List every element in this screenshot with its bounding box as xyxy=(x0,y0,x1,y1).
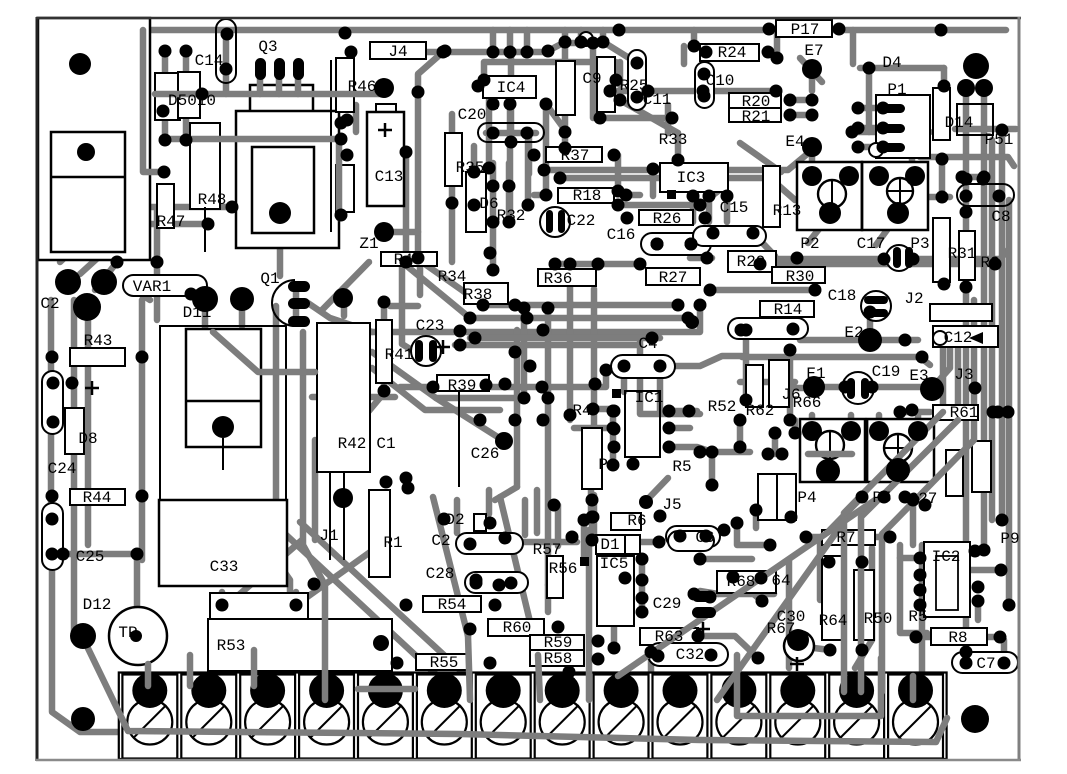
svg-text:R63: R63 xyxy=(655,628,684,646)
svg-text:E2: E2 xyxy=(844,324,863,342)
svg-text:C15: C15 xyxy=(720,199,749,217)
svg-text:R46: R46 xyxy=(348,78,377,96)
svg-text:C19: C19 xyxy=(872,363,901,381)
svg-text:C24: C24 xyxy=(48,460,77,478)
svg-text:R18: R18 xyxy=(573,187,602,205)
svg-text:J5: J5 xyxy=(662,496,681,514)
svg-text:C33: C33 xyxy=(210,558,239,576)
svg-text:E4: E4 xyxy=(785,133,804,151)
svg-text:R32: R32 xyxy=(497,207,526,225)
svg-text:C29: C29 xyxy=(653,595,682,613)
svg-text:D4: D4 xyxy=(882,54,901,72)
svg-text:R1: R1 xyxy=(383,534,402,552)
svg-text:P3: P3 xyxy=(910,235,929,253)
svg-text:R56: R56 xyxy=(549,560,578,578)
svg-text:P17: P17 xyxy=(791,21,820,39)
svg-text:R30: R30 xyxy=(786,268,815,286)
svg-text:J1: J1 xyxy=(319,527,338,545)
svg-text:C12: C12 xyxy=(944,329,973,347)
svg-text:C17: C17 xyxy=(857,235,886,253)
svg-text:R42: R42 xyxy=(338,435,367,453)
svg-text:C23: C23 xyxy=(416,317,445,335)
svg-text:IC5: IC5 xyxy=(600,555,629,573)
svg-text:R50: R50 xyxy=(864,610,893,628)
svg-text:C13: C13 xyxy=(375,168,404,186)
svg-text:J2: J2 xyxy=(904,290,923,308)
svg-text:R33: R33 xyxy=(659,131,688,149)
svg-text:R52: R52 xyxy=(708,398,737,416)
svg-text:C14: C14 xyxy=(195,52,224,70)
svg-text:D8: D8 xyxy=(78,430,97,448)
svg-text:E3: E3 xyxy=(909,367,928,385)
svg-text:R57: R57 xyxy=(533,541,562,559)
svg-text:R38: R38 xyxy=(464,286,493,304)
svg-text:C25: C25 xyxy=(76,548,105,566)
svg-text:C32: C32 xyxy=(676,646,705,664)
svg-text:C28: C28 xyxy=(426,565,455,583)
svg-text:D14: D14 xyxy=(945,114,974,132)
svg-text:C20: C20 xyxy=(458,106,487,124)
svg-text:64: 64 xyxy=(771,572,790,590)
svg-text:P5: P5 xyxy=(872,489,891,507)
svg-text:C2: C2 xyxy=(40,295,59,313)
svg-text:P3: P3 xyxy=(598,456,617,474)
svg-text:R4: R4 xyxy=(572,402,591,420)
svg-text:P9: P9 xyxy=(1000,530,1019,548)
svg-text:Z1: Z1 xyxy=(359,235,378,253)
svg-text:C16: C16 xyxy=(607,226,636,244)
svg-text:P4: P4 xyxy=(797,489,816,507)
svg-text:C9: C9 xyxy=(582,70,601,88)
svg-text:E7: E7 xyxy=(804,42,823,60)
svg-text:D12: D12 xyxy=(83,596,112,614)
svg-text:C22: C22 xyxy=(567,212,596,230)
svg-text:P51: P51 xyxy=(985,131,1014,149)
svg-text:R26: R26 xyxy=(653,210,682,228)
svg-text:R34: R34 xyxy=(438,268,467,286)
svg-text:TP: TP xyxy=(118,624,137,642)
svg-text:C1: C1 xyxy=(376,435,395,453)
svg-text:C10: C10 xyxy=(706,72,735,90)
svg-text:R37: R37 xyxy=(561,147,590,165)
svg-text:R64: R64 xyxy=(819,612,848,630)
svg-text:R31: R31 xyxy=(948,245,977,263)
svg-text:J6: J6 xyxy=(781,386,800,404)
svg-text:C4: C4 xyxy=(638,335,657,353)
svg-text:R58: R58 xyxy=(544,650,573,668)
svg-text:Q1: Q1 xyxy=(260,270,279,288)
svg-text:R35: R35 xyxy=(456,159,485,177)
svg-text:R13: R13 xyxy=(773,202,802,220)
svg-text:IC4: IC4 xyxy=(497,79,526,97)
svg-text:R29: R29 xyxy=(737,253,766,271)
svg-text:R67: R67 xyxy=(767,620,796,638)
svg-text:R24: R24 xyxy=(718,44,747,62)
svg-text:R43: R43 xyxy=(84,332,113,350)
svg-text:C6: C6 xyxy=(695,529,714,547)
svg-text:R41: R41 xyxy=(385,346,414,364)
svg-text:R48: R48 xyxy=(198,191,227,209)
svg-text:C26: C26 xyxy=(471,445,500,463)
svg-text:D11: D11 xyxy=(183,304,212,322)
svg-text:IC2: IC2 xyxy=(932,548,961,566)
svg-text:R68: R68 xyxy=(727,573,756,591)
svg-text:D5010: D5010 xyxy=(168,92,216,110)
svg-text:IC1: IC1 xyxy=(635,389,664,407)
svg-text:P1: P1 xyxy=(887,81,906,99)
svg-text:E1: E1 xyxy=(806,365,825,383)
svg-text:R60: R60 xyxy=(503,619,532,637)
svg-text:R7: R7 xyxy=(836,529,855,547)
svg-text:R2: R2 xyxy=(980,254,999,272)
svg-text:Q3: Q3 xyxy=(258,38,277,56)
svg-text:R6: R6 xyxy=(627,512,646,530)
svg-text:R54: R54 xyxy=(438,596,467,614)
svg-text:R27: R27 xyxy=(659,269,688,287)
svg-text:C11: C11 xyxy=(643,91,672,109)
svg-text:VAR1: VAR1 xyxy=(133,278,171,296)
svg-text:D1: D1 xyxy=(600,536,619,554)
svg-text:IC3: IC3 xyxy=(677,169,706,187)
svg-text:J4: J4 xyxy=(388,43,407,61)
svg-text:C7: C7 xyxy=(976,655,995,673)
svg-text:R5: R5 xyxy=(672,458,691,476)
svg-text:R8: R8 xyxy=(948,629,967,647)
svg-text:R55: R55 xyxy=(430,654,459,672)
svg-text:R47: R47 xyxy=(157,213,186,231)
svg-text:R53: R53 xyxy=(217,637,246,655)
svg-text:R14: R14 xyxy=(774,301,803,319)
svg-text:R36: R36 xyxy=(544,270,573,288)
svg-text:P2: P2 xyxy=(800,235,819,253)
svg-text:R40: R40 xyxy=(394,251,423,269)
svg-text:C18: C18 xyxy=(828,287,857,305)
svg-text:R21: R21 xyxy=(742,108,771,126)
svg-text:R62: R62 xyxy=(746,402,775,420)
svg-text:C8: C8 xyxy=(991,208,1010,226)
svg-text:R39: R39 xyxy=(448,377,477,395)
svg-text:D2: D2 xyxy=(445,511,464,529)
svg-text:R5: R5 xyxy=(908,608,927,626)
svg-text:J3: J3 xyxy=(954,366,973,384)
svg-text:R44: R44 xyxy=(83,489,112,507)
svg-text:C27: C27 xyxy=(909,490,938,508)
svg-text:R61: R61 xyxy=(950,404,979,422)
svg-text:C2: C2 xyxy=(431,532,450,550)
